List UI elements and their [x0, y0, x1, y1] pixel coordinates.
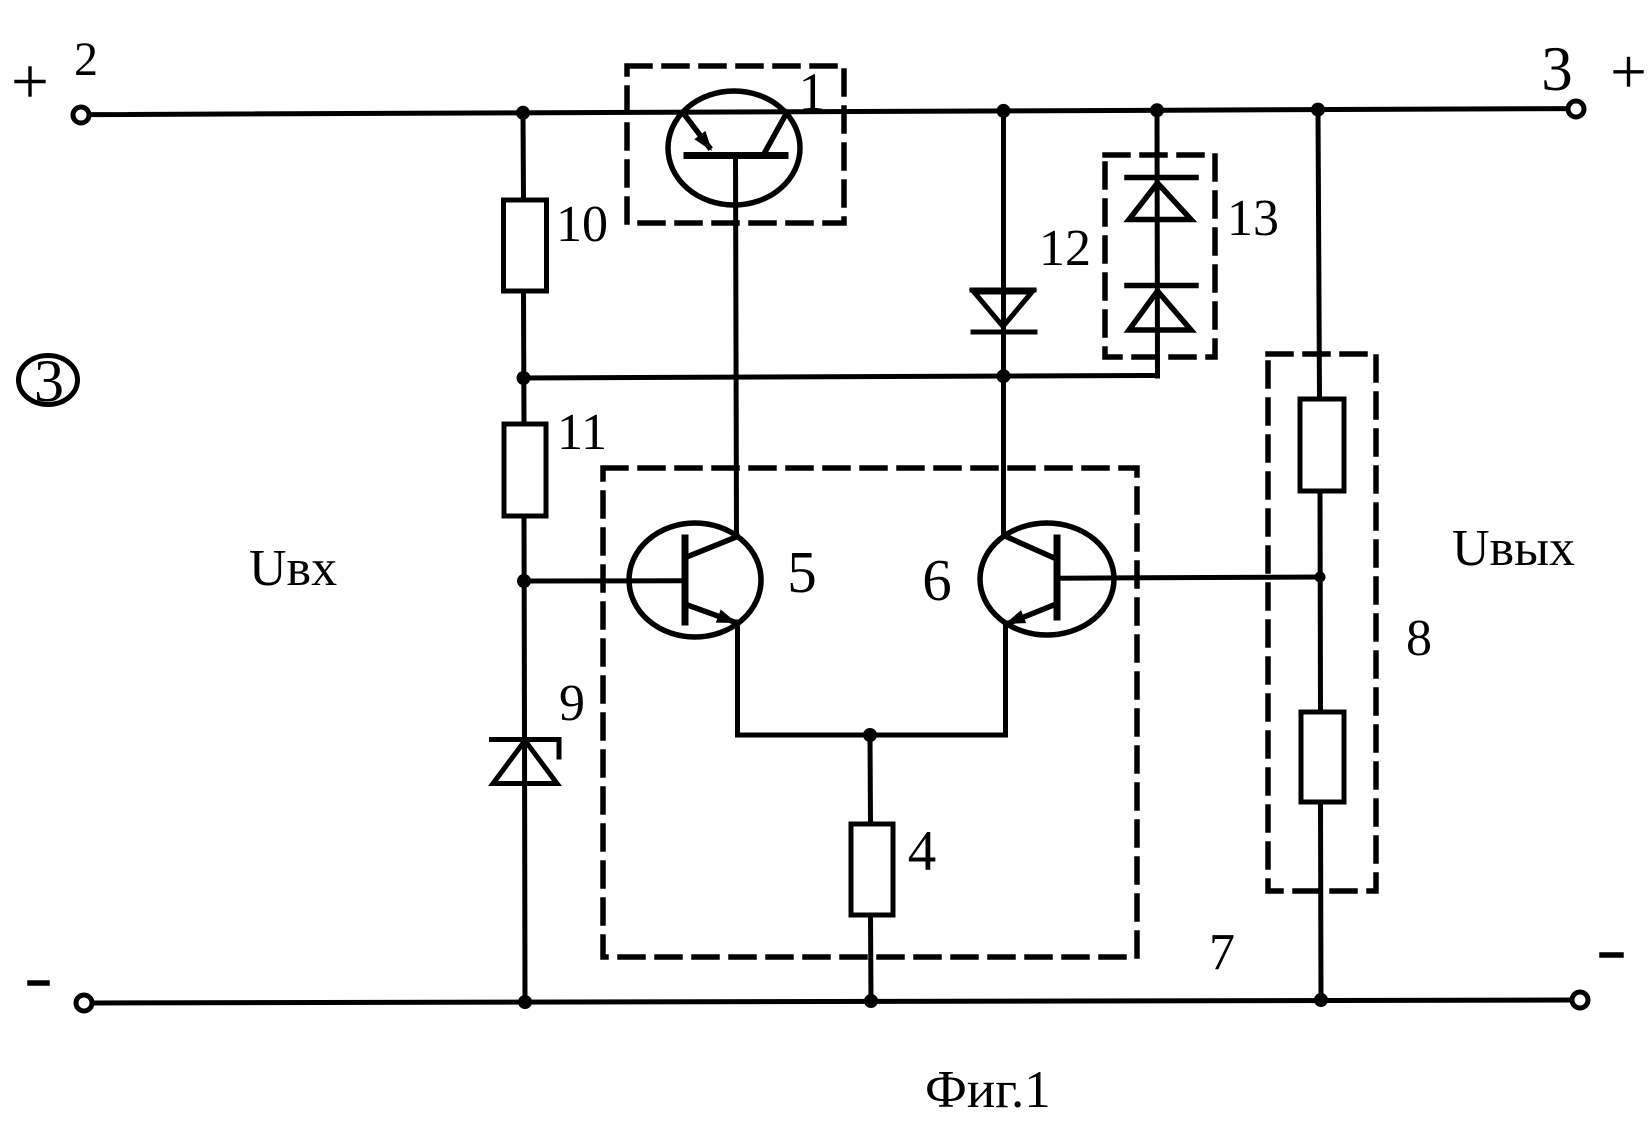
resistor 8b	[1301, 712, 1344, 802]
wire left column: zener 9 to bottom rail	[522, 740, 528, 1002]
node: top rail / left column junction	[516, 106, 530, 120]
wire left column: resistor 10 to resistor 11	[521, 291, 527, 424]
zener diode 9	[492, 740, 560, 784]
svg-text:3: 3	[1541, 34, 1573, 104]
transistor 1	[668, 91, 800, 205]
svg-text:4: 4	[908, 820, 937, 883]
resistor 8a	[1300, 399, 1344, 491]
transistor 1 dashed box	[627, 66, 844, 223]
node: divider tap junction	[1315, 572, 1326, 583]
resistor 11	[504, 424, 546, 516]
svg-text:12: 12	[1039, 220, 1091, 277]
wire base rail (node A to diode 13 branch)	[523, 376, 1158, 379]
diode 13a	[1127, 178, 1196, 220]
node: emitter bus / tail junction	[863, 728, 877, 742]
svg-text:9: 9	[559, 675, 585, 732]
terminal (- input, bottom left)	[76, 995, 92, 1011]
wire: divider branch top rail to resistor 8a	[1318, 110, 1320, 399]
wire: T6 emitter down	[1003, 623, 1008, 735]
svg-text:5: 5	[787, 539, 817, 605]
node: top rail / diode 12 branch junction	[997, 104, 1011, 118]
wire: tail down to resistor 4	[868, 735, 874, 824]
wire: T5 emitter down	[735, 622, 740, 735]
wire left column: resistor 11 to zener 9	[522, 516, 528, 739]
node: bottom rail / divider junction	[1314, 993, 1328, 1007]
wire: diode 13 branch vertical	[1155, 110, 1161, 376]
diode pair 13 dashed box	[1105, 155, 1215, 357]
wire: T5 base wire from node B	[524, 578, 685, 583]
svg-text:7: 7	[1209, 924, 1235, 981]
label + (top left)	[16, 68, 44, 95]
label + (top right)	[1615, 59, 1642, 86]
resistor 10	[504, 200, 547, 291]
wire: resistor 8a to resistor 8b	[1318, 491, 1324, 712]
node: top rail / divider 8 branch junction	[1311, 103, 1325, 117]
wire: resistor 8b to bottom rail	[1318, 802, 1324, 1001]
transistor 5	[629, 523, 761, 637]
terminal 3 (+ output, top right)	[1568, 101, 1584, 117]
wire: T6 base wire to divider tap	[1057, 577, 1320, 578]
node B: left column / T5 base tap	[517, 574, 531, 588]
resistor 4	[851, 824, 893, 915]
svg-text:Фиг.1: Фиг.1	[925, 1061, 1051, 1119]
terminal (- output, bottom right)	[1572, 992, 1588, 1008]
divider dashed box 8	[1268, 354, 1376, 891]
label - (bottom left)	[30, 980, 47, 986]
wire: common emitter bus	[738, 733, 1006, 738]
diode 12	[972, 111, 1035, 537]
node: bottom rail / left column junction	[518, 995, 532, 1009]
svg-text:Uвх: Uвх	[249, 540, 337, 597]
transistor 6	[980, 523, 1114, 635]
node A: left column / base rail junction	[517, 371, 531, 385]
wire top rail	[89, 109, 1568, 115]
node: bottom rail / tail junction	[864, 994, 878, 1008]
wire bottom rail	[92, 1000, 1572, 1003]
node: diode 12 branch / base rail junction	[997, 369, 1011, 383]
diode 13b	[1127, 286, 1196, 331]
svg-text:2: 2	[74, 33, 98, 86]
svg-text:13: 13	[1227, 190, 1279, 247]
label - (bottom right)	[1602, 952, 1621, 958]
svg-text:6: 6	[922, 547, 952, 613]
wire: transistor 1 base down to T5 collector	[736, 156, 737, 538]
wire: resistor 4 to bottom rail	[868, 915, 874, 1002]
svg-text:8: 8	[1406, 610, 1432, 667]
svg-text:10: 10	[556, 196, 608, 253]
svg-text:3: 3	[34, 348, 64, 414]
differential stage dashed box 7	[603, 468, 1137, 957]
terminal 2 (+ input, top left)	[73, 107, 89, 123]
node: top rail / diode 13 branch junction	[1150, 103, 1164, 117]
svg-text:1: 1	[799, 62, 826, 122]
wire left column: top rail to resistor 10	[521, 113, 527, 200]
svg-text:11: 11	[557, 404, 607, 461]
node label: circled 3	[19, 348, 78, 414]
svg-text:Uвых: Uвых	[1452, 520, 1575, 577]
